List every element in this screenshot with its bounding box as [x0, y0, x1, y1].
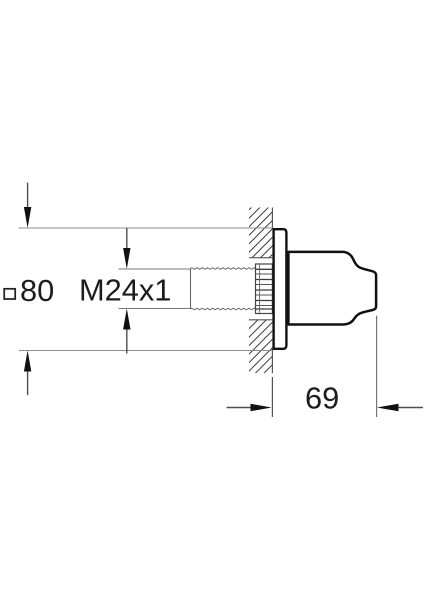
wall face line below flange	[271, 349, 273, 373]
M24 extension line lower	[119, 308, 191, 310]
label square-80	[4, 273, 54, 308]
wall hole bottom edge	[249, 319, 272, 321]
threaded shaft M24x1	[191, 268, 256, 310]
svg-text:80: 80	[20, 273, 54, 308]
escutcheon flange	[274, 229, 287, 349]
wall face line above flange	[271, 208, 273, 230]
extension line top (square 80 upper)	[19, 227, 273, 229]
svg-text:69: 69	[305, 381, 339, 416]
wall hatch upper band	[249, 208, 272, 258]
M24 extension line upper	[119, 268, 191, 270]
label 69	[305, 381, 339, 416]
69 dimension arrow right (points left)	[377, 404, 423, 411]
extension line bottom (square 80 lower)	[19, 350, 272, 352]
69 extension line right (handle front)	[376, 316, 378, 417]
label M24x1	[79, 273, 171, 308]
dimension arrow down (80 top)	[24, 183, 31, 228]
M24 dimension arrow upper (points down)	[123, 228, 130, 269]
svg-text:M24x1: M24x1	[79, 273, 171, 308]
69 extension line left (wall face)	[271, 377, 273, 417]
wall hole top edge	[249, 257, 272, 259]
69 dimension arrow left (points right)	[227, 404, 272, 411]
wall hatch lower band	[249, 320, 272, 373]
handle body	[288, 252, 376, 325]
dimension arrow up (80 bottom)	[24, 351, 31, 396]
M24 dimension arrow lower (points up)	[123, 309, 130, 354]
thread section inside wall	[256, 264, 273, 314]
